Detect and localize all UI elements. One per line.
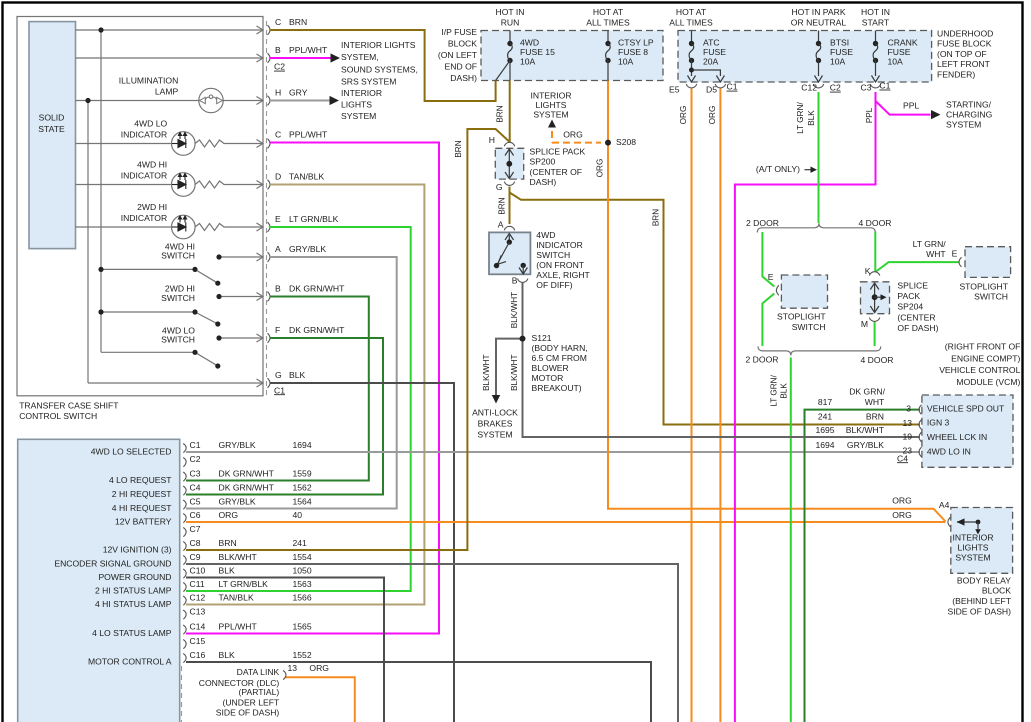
svg-text:WHT: WHT [926,249,946,259]
svg-text:DATA LINK: DATA LINK [237,667,280,677]
svg-text:(CENTER: (CENTER [897,312,935,322]
svg-text:INTERIOR: INTERIOR [341,88,382,98]
svg-text:STOPLIGHT: STOPLIGHT [959,281,1008,291]
svg-text:LIGHTS: LIGHTS [535,100,566,110]
svg-text:12V BATTERY: 12V BATTERY [115,516,172,526]
svg-text:ENCODER SIGNAL GROUND: ENCODER SIGNAL GROUND [54,558,171,568]
svg-text:SPLICE PACK: SPLICE PACK [530,147,586,157]
svg-text:2 HI STATUS LAMP: 2 HI STATUS LAMP [95,585,172,595]
svg-text:10A: 10A [888,57,904,67]
svg-text:SYSTEM: SYSTEM [955,552,990,562]
svg-text:4 HI REQUEST: 4 HI REQUEST [112,503,172,513]
svg-text:1552: 1552 [293,650,312,660]
svg-text:S208: S208 [616,137,636,147]
svg-text:OF DASH): OF DASH) [897,323,938,333]
svg-text:RUN: RUN [501,17,520,27]
svg-text:BLOCK: BLOCK [448,38,477,48]
svg-text:ORG: ORG [679,106,688,125]
svg-text:BODY RELAY: BODY RELAY [957,575,1011,585]
svg-text:C1: C1 [274,385,285,395]
svg-text:6.5 CM FROM: 6.5 CM FROM [532,353,587,363]
svg-text:BRN: BRN [498,197,507,214]
svg-text:C2: C2 [190,454,201,464]
svg-text:LIGHTS: LIGHTS [957,542,988,552]
svg-text:2 DOOR: 2 DOOR [746,354,779,364]
svg-text:C9: C9 [190,552,201,562]
svg-text:E: E [952,248,958,258]
svg-text:OF DIFF): OF DIFF) [536,280,572,290]
svg-text:BLOCK: BLOCK [982,586,1011,596]
svg-text:PPL/WHT: PPL/WHT [219,621,258,631]
svg-text:START: START [862,17,890,27]
svg-text:10A: 10A [830,57,846,67]
svg-text:STATE: STATE [38,124,65,134]
svg-text:HOT IN: HOT IN [496,7,525,17]
svg-text:20A: 20A [703,57,719,67]
svg-text:B: B [512,275,518,285]
svg-text:C: C [275,129,281,139]
svg-text:241: 241 [818,412,833,422]
svg-text:INDICATOR: INDICATOR [536,240,582,250]
svg-text:OR NEUTRAL: OR NEUTRAL [791,17,847,27]
svg-text:TRANSFER CASE SHIFT: TRANSFER CASE SHIFT [19,400,119,410]
svg-text:TAN/BLK: TAN/BLK [289,171,324,181]
svg-text:TAN/BLK: TAN/BLK [219,592,254,602]
svg-text:2 DOOR: 2 DOOR [746,218,779,228]
svg-text:4WD LO SELECTED: 4WD LO SELECTED [91,446,172,456]
svg-text:C2: C2 [274,62,285,72]
svg-text:BLK: BLK [779,383,788,399]
svg-text:E: E [768,272,774,282]
svg-text:I/P FUSE: I/P FUSE [441,27,477,37]
svg-text:SWITCH: SWITCH [161,251,195,261]
svg-text:UNDERHOOD: UNDERHOOD [937,28,993,38]
svg-text:4 LO STATUS LAMP: 4 LO STATUS LAMP [92,628,172,638]
svg-text:SP200: SP200 [530,157,556,167]
svg-text:(A/T ONLY): (A/T ONLY) [756,164,800,174]
svg-text:(ON LEFT: (ON LEFT [438,50,478,60]
svg-text:(RIGHT FRONT OF: (RIGHT FRONT OF [945,341,1021,351]
svg-text:FUSE: FUSE [888,47,911,57]
svg-text:INTERIOR: INTERIOR [530,90,571,100]
svg-text:BLOWER: BLOWER [532,363,569,373]
svg-text:4 DOOR: 4 DOOR [859,218,892,228]
svg-text:SOLID: SOLID [39,112,65,122]
svg-text:LT GRN/: LT GRN/ [769,374,778,406]
svg-text:40: 40 [293,510,303,520]
svg-text:C12: C12 [801,83,817,93]
svg-text:4WD: 4WD [536,230,555,240]
svg-text:ORG: ORG [563,129,583,139]
svg-text:INDICATOR: INDICATOR [121,171,167,181]
svg-text:4 DOOR: 4 DOOR [861,355,894,365]
svg-text:SIDE OF DASH): SIDE OF DASH) [947,606,1011,616]
svg-text:VEHICLE CONTROL: VEHICLE CONTROL [939,365,1020,375]
svg-text:C7: C7 [190,524,201,534]
svg-text:D5: D5 [706,84,717,94]
svg-text:BRN: BRN [496,105,505,122]
svg-text:1565: 1565 [293,621,312,631]
svg-text:1566: 1566 [293,592,312,602]
svg-text:1694: 1694 [815,440,834,450]
svg-text:INTERIOR: INTERIOR [952,532,993,542]
svg-text:817: 817 [818,397,833,407]
svg-text:LT GRN/: LT GRN/ [796,102,805,134]
svg-text:FUSE BLOCK: FUSE BLOCK [937,39,992,49]
svg-text:BRN: BRN [219,538,237,548]
svg-text:ANTI-LOCK: ANTI-LOCK [472,407,518,417]
svg-text:LEFT FRONT: LEFT FRONT [937,59,991,69]
svg-text:CONTROL SWITCH: CONTROL SWITCH [19,411,97,421]
svg-text:C4: C4 [897,453,908,463]
svg-text:BLK/WHT: BLK/WHT [482,354,491,390]
svg-text:C: C [275,17,281,27]
svg-text:SP204: SP204 [897,302,923,312]
svg-text:1563: 1563 [293,579,312,589]
svg-text:CRANK: CRANK [888,37,918,47]
svg-text:ALL TIMES: ALL TIMES [586,17,630,27]
svg-text:BLK/WHT: BLK/WHT [510,292,519,328]
svg-text:GRY/BLK: GRY/BLK [219,440,256,450]
svg-text:C3: C3 [861,83,872,93]
svg-text:BLK/WHT: BLK/WHT [219,552,258,562]
svg-text:2 HI REQUEST: 2 HI REQUEST [112,489,172,499]
svg-text:C5: C5 [190,496,201,506]
svg-text:FUSE 8: FUSE 8 [618,47,648,57]
svg-text:SYSTEM: SYSTEM [533,109,568,119]
svg-text:HOT AT: HOT AT [676,7,707,17]
svg-text:C15: C15 [190,636,206,646]
svg-text:PPL/WHT: PPL/WHT [289,45,328,55]
svg-text:SYSTEM: SYSTEM [946,120,981,130]
svg-text:BRN: BRN [866,412,884,422]
svg-text:BLK/WHT: BLK/WHT [510,354,519,390]
svg-text:ALL TIMES: ALL TIMES [669,17,713,27]
svg-text:BRAKES: BRAKES [478,418,513,428]
svg-text:ENGINE COMPT): ENGINE COMPT) [951,353,1020,363]
svg-text:1564: 1564 [293,496,312,506]
svg-text:C1: C1 [727,82,738,92]
svg-text:10A: 10A [618,57,634,67]
svg-text:HOT IN: HOT IN [861,7,890,17]
svg-text:DK GRN/: DK GRN/ [849,387,885,397]
svg-text:DASH): DASH) [530,177,557,187]
svg-text:ATC: ATC [703,37,720,47]
svg-text:(ON FRONT: (ON FRONT [536,260,584,270]
svg-text:(BEHIND LEFT: (BEHIND LEFT [952,596,1011,606]
svg-text:IGN 3: IGN 3 [927,418,950,428]
svg-text:K: K [865,266,871,276]
svg-text:SWITCH: SWITCH [792,322,826,332]
svg-text:AXLE, RIGHT: AXLE, RIGHT [536,270,590,280]
svg-text:BRN: BRN [652,209,661,226]
svg-text:C16: C16 [190,650,206,660]
svg-text:A: A [498,220,504,230]
svg-text:SRS SYSTEM: SRS SYSTEM [341,77,396,87]
svg-text:ORG: ORG [708,106,717,125]
svg-text:BREAKOUT): BREAKOUT) [532,383,582,393]
svg-text:FENDER): FENDER) [937,69,975,79]
svg-text:INDICATOR: INDICATOR [121,213,167,223]
svg-text:SWITCH: SWITCH [536,250,570,260]
svg-text:(PARTIAL): (PARTIAL) [239,687,280,697]
svg-text:SWITCH: SWITCH [161,293,195,303]
svg-text:PPL: PPL [903,100,919,110]
svg-text:SWITCH: SWITCH [161,334,195,344]
svg-text:13: 13 [288,663,298,673]
svg-text:3: 3 [906,403,911,413]
svg-text:H: H [275,87,281,97]
svg-text:FUSE: FUSE [830,47,853,57]
svg-text:E: E [275,214,281,224]
svg-text:DK GRN/WHT: DK GRN/WHT [289,283,345,293]
svg-text:MOTOR CONTROL A: MOTOR CONTROL A [88,656,172,666]
svg-text:LAMP: LAMP [155,87,179,97]
svg-text:SYSTEM,: SYSTEM, [341,52,379,62]
svg-text:G: G [496,182,503,192]
svg-text:STARTING/: STARTING/ [946,99,992,109]
svg-text:MODULE (VCM): MODULE (VCM) [956,377,1020,387]
svg-text:4 LO REQUEST: 4 LO REQUEST [109,475,172,485]
svg-text:BLK: BLK [289,370,306,380]
svg-text:LT GRN/BLK: LT GRN/BLK [289,214,339,224]
svg-text:1562: 1562 [293,482,312,492]
svg-text:1554: 1554 [293,552,312,562]
svg-text:FUSE 15: FUSE 15 [520,47,555,57]
svg-text:PACK: PACK [897,291,920,301]
svg-text:CTSY LP: CTSY LP [618,37,654,47]
svg-text:10A: 10A [520,57,536,67]
svg-text:C1: C1 [190,440,201,450]
svg-text:E5: E5 [669,84,680,94]
svg-text:1694: 1694 [293,440,312,450]
svg-text:ILLUMINATION: ILLUMINATION [119,75,179,85]
svg-text:POWER GROUND: POWER GROUND [98,572,171,582]
svg-text:C6: C6 [190,510,201,520]
svg-text:SOUND SYSTEMS,: SOUND SYSTEMS, [341,64,418,74]
svg-text:(UNDER LEFT: (UNDER LEFT [222,697,280,707]
svg-text:HOT AT: HOT AT [593,7,624,17]
svg-text:SIDE OF DASH): SIDE OF DASH) [216,708,280,718]
svg-text:PPL: PPL [865,107,874,123]
svg-text:C1: C1 [879,81,890,91]
svg-text:ORG: ORG [892,510,912,520]
svg-text:241: 241 [293,538,308,548]
svg-text:M: M [861,319,868,329]
svg-text:GRY/BLK: GRY/BLK [289,244,326,254]
svg-text:GRY: GRY [289,87,308,97]
svg-text:BLK: BLK [219,650,236,660]
svg-text:1695: 1695 [815,425,834,435]
svg-text:DK GRN/WHT: DK GRN/WHT [219,482,275,492]
svg-text:GRY/BLK: GRY/BLK [847,440,884,450]
svg-text:END OF: END OF [445,62,477,72]
svg-text:4WD: 4WD [520,37,539,47]
svg-text:B: B [275,283,281,293]
svg-text:(ON TOP OF: (ON TOP OF [937,49,987,59]
svg-text:C13: C13 [190,606,206,616]
svg-text:A4: A4 [939,500,950,510]
svg-text:INDICATOR: INDICATOR [121,130,167,140]
svg-text:LT GRN/BLK: LT GRN/BLK [219,579,269,589]
svg-text:VEHICLE SPD OUT: VEHICLE SPD OUT [927,404,1005,414]
svg-text:C11: C11 [190,579,205,589]
svg-text:1050: 1050 [293,565,312,575]
svg-text:STOPLIGHT: STOPLIGHT [777,312,826,322]
svg-text:C3: C3 [190,468,201,478]
svg-text:FUSE: FUSE [703,47,726,57]
svg-text:GRY/BLK: GRY/BLK [219,496,256,506]
svg-text:12V IGNITION (3): 12V IGNITION (3) [103,544,172,554]
svg-text:LT GRN/: LT GRN/ [913,239,947,249]
svg-text:INTERIOR LIGHTS: INTERIOR LIGHTS [341,40,416,50]
svg-text:BLK: BLK [807,110,816,126]
svg-text:DK GRN/WHT: DK GRN/WHT [289,325,345,335]
svg-text:A: A [275,244,281,254]
svg-text:HOT IN PARK: HOT IN PARK [791,7,845,17]
svg-text:SYSTEM: SYSTEM [477,429,512,439]
svg-text:C10: C10 [190,565,206,575]
svg-text:C12: C12 [190,592,206,602]
svg-text:1559: 1559 [293,468,312,478]
svg-text:ORG: ORG [309,663,329,673]
svg-text:SYSTEM: SYSTEM [341,111,376,121]
svg-text:ORG: ORG [892,495,912,505]
svg-text:ORG: ORG [596,159,605,178]
svg-text:CHARGING: CHARGING [946,109,993,119]
svg-text:BRN: BRN [289,17,307,27]
svg-text:BRN: BRN [454,140,463,157]
svg-text:4 HI STATUS LAMP: 4 HI STATUS LAMP [95,599,172,609]
svg-text:(CENTER OF: (CENTER OF [530,167,583,177]
svg-text:SWITCH: SWITCH [974,292,1008,302]
svg-text:C4: C4 [190,482,201,492]
svg-text:DK GRN/WHT: DK GRN/WHT [219,468,275,478]
svg-text:4WD LO IN: 4WD LO IN [927,447,971,457]
svg-text:PPL/WHT: PPL/WHT [289,129,328,139]
svg-text:S121: S121 [532,333,552,343]
svg-text:BLK/WHT: BLK/WHT [846,425,885,435]
svg-text:19: 19 [902,431,912,441]
svg-text:WHT: WHT [865,397,885,407]
svg-text:DASH): DASH) [450,73,477,83]
svg-text:LIGHTS: LIGHTS [341,99,372,109]
svg-text:(BODY HARN,: (BODY HARN, [532,343,588,353]
svg-text:BTSI: BTSI [830,37,849,47]
svg-text:4WD HI: 4WD HI [137,159,167,169]
svg-text:MOTOR: MOTOR [532,373,564,383]
svg-text:C14: C14 [190,621,206,631]
svg-text:4WD LO: 4WD LO [134,118,167,128]
svg-text:D: D [275,171,281,181]
svg-text:SPLICE: SPLICE [897,280,928,290]
svg-text:BLK: BLK [219,565,236,575]
svg-text:B: B [275,45,281,55]
svg-text:G: G [275,370,282,380]
svg-text:ORG: ORG [219,510,239,520]
svg-text:H: H [489,135,495,145]
svg-text:WHEEL LCK IN: WHEEL LCK IN [927,432,987,442]
svg-text:C2: C2 [830,83,841,93]
svg-text:C8: C8 [190,538,201,548]
svg-text:F: F [275,325,280,335]
svg-text:13: 13 [902,418,912,428]
svg-text:2WD HI: 2WD HI [137,202,167,212]
